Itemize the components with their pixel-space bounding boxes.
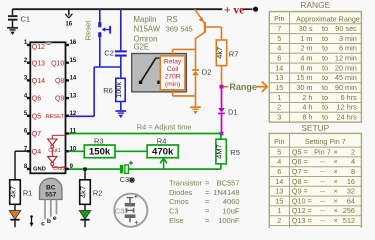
svg-text:--: -- bbox=[320, 177, 325, 186]
svg-text:3 min: 3 min bbox=[339, 34, 357, 43]
svg-text:4: 4 bbox=[277, 157, 281, 166]
capacitor C2 bbox=[104, 9, 126, 67]
svg-text:=: = bbox=[205, 216, 210, 225]
svg-text:5: 5 bbox=[277, 147, 281, 156]
svg-text:Else: Else bbox=[169, 216, 184, 225]
svg-text:Q7 =: Q7 = bbox=[292, 167, 308, 176]
svg-text:e: e bbox=[53, 215, 57, 222]
svg-text:×: × bbox=[334, 206, 338, 215]
svg-text:4: 4 bbox=[277, 44, 281, 53]
svg-text:BC: BC bbox=[46, 184, 56, 191]
svg-text:Diodes: Diodes bbox=[169, 188, 193, 197]
svg-text:R5: R5 bbox=[230, 148, 240, 157]
svg-text:2 h: 2 h bbox=[302, 93, 312, 102]
svg-text:to: to bbox=[322, 73, 328, 82]
Range arrow to table bbox=[256, 82, 268, 92]
R4 = Adjust time label bbox=[137, 123, 192, 132]
svg-text:6 hrs: 6 hrs bbox=[341, 93, 358, 102]
svg-text:64: 64 bbox=[347, 196, 355, 205]
svg-text:Pin: Pin bbox=[274, 137, 284, 146]
svg-text:24 hrs: 24 hrs bbox=[337, 112, 358, 121]
svg-text:13: 13 bbox=[275, 73, 283, 82]
svg-text:2: 2 bbox=[351, 147, 355, 156]
svg-text:90 sec: 90 sec bbox=[335, 24, 357, 33]
resistor R1 4k7 bbox=[8, 180, 32, 211]
svg-text:7: 7 bbox=[277, 24, 281, 33]
svg-text:4k7: 4k7 bbox=[8, 186, 17, 198]
relay switch contacts bbox=[139, 58, 161, 84]
svg-text:Q9: Q9 bbox=[55, 96, 64, 103]
svg-text:Q14: Q14 bbox=[32, 78, 45, 85]
svg-text:Q6: Q6 bbox=[32, 96, 41, 103]
svg-text:×: × bbox=[334, 177, 338, 186]
svg-text:RESET: RESET bbox=[46, 114, 65, 120]
relay coil box 270R bbox=[160, 56, 185, 90]
svg-text:10uF: 10uF bbox=[222, 207, 240, 216]
svg-text:to: to bbox=[322, 63, 328, 72]
svg-text:100k: 100k bbox=[114, 82, 123, 98]
svg-text:256: 256 bbox=[343, 206, 355, 215]
IC pin 8 GND label bbox=[33, 167, 46, 173]
svg-text:Q7: Q7 bbox=[32, 131, 41, 138]
wire pin 11 to R5 top bbox=[69, 133, 221, 135]
Reset label bbox=[84, 20, 93, 41]
svg-text:16: 16 bbox=[70, 40, 77, 46]
wire blue junction row bbox=[69, 67, 121, 116]
svg-text:--: -- bbox=[320, 157, 325, 166]
svg-text:=: = bbox=[205, 188, 210, 197]
svg-text:+: + bbox=[134, 218, 139, 227]
resistor R3 150k bbox=[84, 136, 115, 157]
svg-text:Q13 =: Q13 = bbox=[292, 216, 312, 225]
svg-text:Q10 =: Q10 = bbox=[292, 196, 312, 205]
transistor BC557 package drawing bbox=[40, 178, 63, 227]
svg-text:20 min: 20 min bbox=[335, 63, 357, 72]
svg-text:c: c bbox=[41, 220, 45, 227]
svg-text:Setting Pin 7: Setting Pin 7 bbox=[305, 137, 346, 146]
svg-text:Q12 =: Q12 = bbox=[292, 206, 312, 215]
svg-text:12 min: 12 min bbox=[335, 53, 357, 62]
svg-text:R1: R1 bbox=[23, 189, 33, 198]
component values text block bbox=[169, 179, 240, 225]
svg-text:Pin: Pin bbox=[274, 14, 284, 23]
resistor R7 4k7 bbox=[215, 27, 238, 86]
inverter Out1 inside IC bbox=[48, 135, 66, 154]
wire collector to relay and D2 bbox=[173, 38, 196, 70]
svg-text:4M7: 4M7 bbox=[214, 144, 223, 158]
small 0V arrow marker bbox=[30, 215, 34, 227]
power arrow to pin 16 bbox=[65, 9, 73, 27]
svg-text:1N4148: 1N4148 bbox=[213, 188, 239, 197]
svg-text:SETUP: SETUP bbox=[301, 123, 329, 133]
svg-text:Out1: Out1 bbox=[48, 148, 61, 154]
diode D2 bbox=[192, 68, 211, 107]
wire pin 7 to R1 bbox=[15, 151, 27, 180]
svg-text:×: × bbox=[334, 226, 338, 228]
Range label bbox=[229, 82, 257, 92]
resistor R2 4k7 bbox=[78, 169, 102, 211]
svg-text:100nF: 100nF bbox=[218, 216, 240, 225]
diode D1 bbox=[218, 88, 237, 133]
svg-text:BC557: BC557 bbox=[217, 179, 240, 188]
svg-text:=: = bbox=[205, 179, 210, 188]
relay body box bbox=[132, 54, 187, 92]
relay part labels Maplin RS Omron bbox=[134, 15, 193, 51]
svg-text:Reset: Reset bbox=[84, 20, 93, 41]
inverter Out2 inside IC bbox=[48, 148, 66, 172]
svg-text:R2: R2 bbox=[93, 189, 103, 198]
svg-text:Q13: Q13 bbox=[32, 60, 45, 67]
svg-text:C3: C3 bbox=[115, 207, 125, 216]
svg-text:to: to bbox=[322, 103, 328, 112]
IC U1 4060 body bbox=[30, 42, 65, 173]
svg-text:D1: D1 bbox=[228, 107, 238, 116]
LED D4 green bbox=[79, 211, 90, 228]
svg-text:Maplin: Maplin bbox=[134, 15, 157, 24]
svg-text:90 min: 90 min bbox=[335, 83, 357, 92]
svg-text:R6: R6 bbox=[103, 86, 113, 95]
svg-text:RS: RS bbox=[167, 15, 178, 24]
svg-text:Range: Range bbox=[229, 82, 257, 92]
svg-text:3: 3 bbox=[277, 226, 281, 228]
svg-text:2 m: 2 m bbox=[300, 44, 312, 53]
svg-text:--: -- bbox=[320, 226, 325, 228]
svg-text:5: 5 bbox=[277, 34, 281, 43]
push button Reset bbox=[98, 9, 111, 67]
capacitor C1 bbox=[8, 9, 30, 27]
node D1 to green wire junction dot bbox=[220, 132, 224, 136]
IC left pin stubs 1-8 bbox=[27, 44, 30, 170]
svg-text:4060: 4060 bbox=[223, 197, 240, 206]
svg-text:×: × bbox=[334, 167, 338, 176]
svg-text:14: 14 bbox=[70, 76, 77, 82]
node Range junction dot bbox=[220, 85, 229, 89]
svg-text:6: 6 bbox=[277, 167, 281, 176]
svg-text:512: 512 bbox=[343, 216, 355, 225]
svg-text:R7: R7 bbox=[229, 50, 239, 59]
svg-text:D2: D2 bbox=[202, 68, 212, 77]
svg-text:--: -- bbox=[320, 216, 325, 225]
transistor Q1 BC557 symbol bbox=[195, 9, 222, 38]
svg-text:15: 15 bbox=[275, 196, 283, 205]
svg-text:150k: 150k bbox=[89, 147, 111, 158]
svg-text:30 s: 30 s bbox=[299, 24, 313, 33]
svg-text:R4 = Adjust time: R4 = Adjust time bbox=[137, 123, 192, 132]
svg-text:1: 1 bbox=[277, 206, 281, 215]
ground below C1 bbox=[7, 28, 18, 35]
wire pin 10 to R3 bbox=[69, 150, 84, 152]
svg-text:15: 15 bbox=[275, 83, 283, 92]
svg-text:270R: 270R bbox=[164, 74, 180, 81]
svg-text:C3: C3 bbox=[169, 207, 179, 216]
IC left pin names Q12 Q13 Q14 Q6 Q5 Q7 Q4 bbox=[32, 44, 45, 156]
svg-text:14: 14 bbox=[275, 63, 283, 72]
node pin9 to R2 junction dot bbox=[83, 167, 86, 170]
svg-text:+: + bbox=[134, 192, 139, 201]
svg-text:Cmos: Cmos bbox=[169, 197, 189, 206]
svg-text:3: 3 bbox=[277, 112, 281, 121]
svg-text:--: -- bbox=[320, 187, 325, 196]
svg-text:×: × bbox=[334, 216, 338, 225]
svg-text:6 min: 6 min bbox=[339, 44, 357, 53]
svg-text:2: 2 bbox=[277, 216, 281, 225]
svg-text:16: 16 bbox=[65, 20, 72, 27]
svg-text:+: + bbox=[129, 159, 134, 168]
svg-text:=: = bbox=[205, 207, 210, 216]
svg-text:8: 8 bbox=[351, 167, 355, 176]
svg-text:C1: C1 bbox=[21, 14, 31, 23]
svg-text:470k: 470k bbox=[152, 147, 174, 158]
svg-text:+ ve: + ve bbox=[224, 5, 244, 17]
svg-text:15: 15 bbox=[70, 58, 77, 64]
SETUP table bbox=[269, 123, 361, 235]
svg-text:15 m: 15 m bbox=[296, 73, 312, 82]
svg-text:14: 14 bbox=[275, 177, 283, 186]
IC left pin numbers 1-8 bbox=[24, 40, 28, 170]
svg-text:Transistor: Transistor bbox=[169, 179, 203, 188]
svg-text:×: × bbox=[334, 157, 338, 166]
C3 mounting diagram circle bbox=[114, 192, 147, 227]
svg-text:Q6 =: Q6 = bbox=[292, 157, 308, 166]
svg-text:Q12: Q12 bbox=[32, 44, 45, 51]
svg-text:369 545: 369 545 bbox=[166, 24, 193, 33]
svg-text:×: × bbox=[334, 196, 338, 205]
R4 wiper arrow bbox=[160, 158, 167, 169]
C3 polarity sunburst mark bbox=[129, 177, 135, 183]
wire +ve top supply rail bbox=[13, 8, 223, 10]
svg-text:Coil: Coil bbox=[167, 66, 179, 73]
svg-text:4k7: 4k7 bbox=[215, 47, 224, 59]
svg-text:C2: C2 bbox=[104, 48, 114, 57]
+ve terminal label and dot bbox=[224, 5, 258, 17]
svg-text:to: to bbox=[322, 83, 328, 92]
IC right pin names Q10 Q8 Q9 RESET bbox=[46, 60, 65, 120]
svg-text:to: to bbox=[322, 44, 328, 53]
svg-text:G2E: G2E bbox=[134, 42, 150, 51]
resistor R6 100k bbox=[103, 67, 125, 110]
svg-text:RANGE: RANGE bbox=[300, 0, 330, 10]
svg-text:to: to bbox=[322, 34, 328, 43]
svg-text:Q8 =: Q8 = bbox=[292, 177, 308, 186]
svg-text:1: 1 bbox=[277, 93, 281, 102]
svg-text:4k7: 4k7 bbox=[78, 186, 87, 198]
svg-text:N15AW: N15AW bbox=[134, 24, 161, 33]
LED D3 orange bbox=[9, 211, 20, 228]
svg-text:Pin 7: Pin 7 bbox=[314, 147, 331, 156]
wire relay coil bottom to ground bbox=[173, 90, 196, 96]
svg-text:×: × bbox=[334, 187, 338, 196]
svg-text:2: 2 bbox=[277, 103, 281, 112]
svg-text:Q8: Q8 bbox=[55, 78, 64, 85]
svg-text:Q9 =: Q9 = bbox=[292, 187, 308, 196]
wire R3 to R4 bbox=[115, 150, 147, 152]
svg-text:C3: C3 bbox=[120, 175, 130, 184]
svg-text:30 m: 30 m bbox=[296, 83, 312, 92]
svg-text:to: to bbox=[322, 112, 328, 121]
svg-text:1024: 1024 bbox=[339, 226, 355, 228]
IC right pin stubs 16-9 bbox=[66, 44, 69, 170]
svg-text:4 h: 4 h bbox=[302, 103, 312, 112]
svg-text:--: -- bbox=[320, 196, 325, 205]
svg-text:45 min: 45 min bbox=[335, 73, 357, 82]
svg-text:R3: R3 bbox=[94, 136, 104, 145]
svg-text:Q4: Q4 bbox=[32, 149, 41, 156]
svg-text:--: -- bbox=[320, 206, 325, 215]
svg-text:4 m: 4 m bbox=[300, 53, 312, 62]
svg-text:Q5 =: Q5 = bbox=[292, 147, 308, 156]
svg-text:1 m: 1 m bbox=[300, 34, 312, 43]
svg-text:4: 4 bbox=[351, 157, 355, 166]
svg-text:--: -- bbox=[320, 167, 325, 176]
svg-text:to: to bbox=[322, 24, 328, 33]
svg-text:Q10: Q10 bbox=[51, 60, 64, 67]
svg-text:×: × bbox=[334, 147, 338, 156]
svg-text:6: 6 bbox=[277, 53, 281, 62]
svg-text:8 m: 8 m bbox=[300, 63, 312, 72]
svg-text:to: to bbox=[322, 53, 328, 62]
ground below R6 bbox=[115, 111, 126, 118]
ground relay and D2 bbox=[190, 107, 201, 114]
svg-text:557: 557 bbox=[45, 191, 56, 198]
svg-text:13: 13 bbox=[275, 187, 283, 196]
svg-text:12 hrs: 12 hrs bbox=[337, 103, 358, 112]
IC right pin numbers 16-9 bbox=[70, 40, 77, 170]
svg-text:(min): (min) bbox=[165, 81, 180, 88]
wire pin 9 bottom net bbox=[69, 168, 221, 170]
capacitor C3 symbol bbox=[120, 159, 134, 185]
svg-text:Relay: Relay bbox=[164, 58, 182, 65]
svg-text:GND: GND bbox=[33, 167, 46, 173]
svg-text:Approximate Range: Approximate Range bbox=[296, 14, 360, 23]
svg-text:8 h: 8 h bbox=[302, 112, 312, 121]
svg-text:16: 16 bbox=[347, 177, 355, 186]
svg-text:R4: R4 bbox=[157, 136, 167, 145]
svg-text:32: 32 bbox=[347, 187, 355, 196]
svg-text:b: b bbox=[47, 218, 51, 225]
svg-text:Q14 =: Q14 = bbox=[292, 226, 312, 228]
svg-text:Q5: Q5 bbox=[32, 113, 41, 120]
svg-text:=: = bbox=[205, 197, 210, 206]
svg-text:to: to bbox=[322, 93, 328, 102]
potentiometer R4 470k bbox=[147, 136, 178, 157]
svg-text:13: 13 bbox=[70, 93, 77, 99]
RANGE table bbox=[269, 0, 361, 122]
resistor R5 4M7 bbox=[214, 134, 239, 170]
svg-text:Out2: Out2 bbox=[53, 166, 66, 172]
